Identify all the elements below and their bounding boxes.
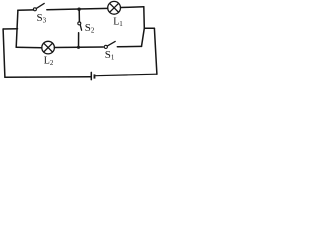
wire left rail: top corner down to middle wire <box>16 10 18 47</box>
wire right rail: corner down through T to S1 level <box>142 7 145 47</box>
lamp L2 <box>42 41 55 54</box>
wire lamp L2 to node Q <box>54 46 78 48</box>
switch S2 pivot circle <box>78 22 81 25</box>
junction dot node P <box>77 8 80 11</box>
battery long plate <box>90 72 92 79</box>
wire right jog: T junction to outer right rail <box>144 27 154 29</box>
junction dot node Q <box>77 46 80 49</box>
switch S3 blade <box>36 3 44 8</box>
wire node P to lamp L1 <box>79 7 108 10</box>
wire top-left corner to switch S3 <box>18 9 34 11</box>
wire middle-left corner to lamp L2 <box>16 46 42 48</box>
wire outer left rail up <box>3 29 5 77</box>
wire S1 to right corner <box>117 45 141 47</box>
lamp L1 <box>108 1 121 14</box>
battery short plate <box>94 74 96 78</box>
wire bottom right: corner to battery <box>96 74 157 76</box>
wire battery to bottom-left corner <box>5 76 91 79</box>
wire node Q to switch S1 <box>79 46 104 48</box>
wire lamp L1 to top-right corner <box>121 6 144 9</box>
switch S1 pivot circle <box>104 45 107 48</box>
switch S1 blade <box>107 41 115 46</box>
switch S2 blade <box>80 25 81 31</box>
wire outer right rail down <box>154 28 157 74</box>
wire S2 to node Q <box>78 33 80 48</box>
wire S3 to node P <box>47 8 79 11</box>
wire left jog to left rail <box>3 28 17 30</box>
switch S3 pivot circle <box>33 8 36 11</box>
wire node P down to S2 <box>78 9 80 22</box>
